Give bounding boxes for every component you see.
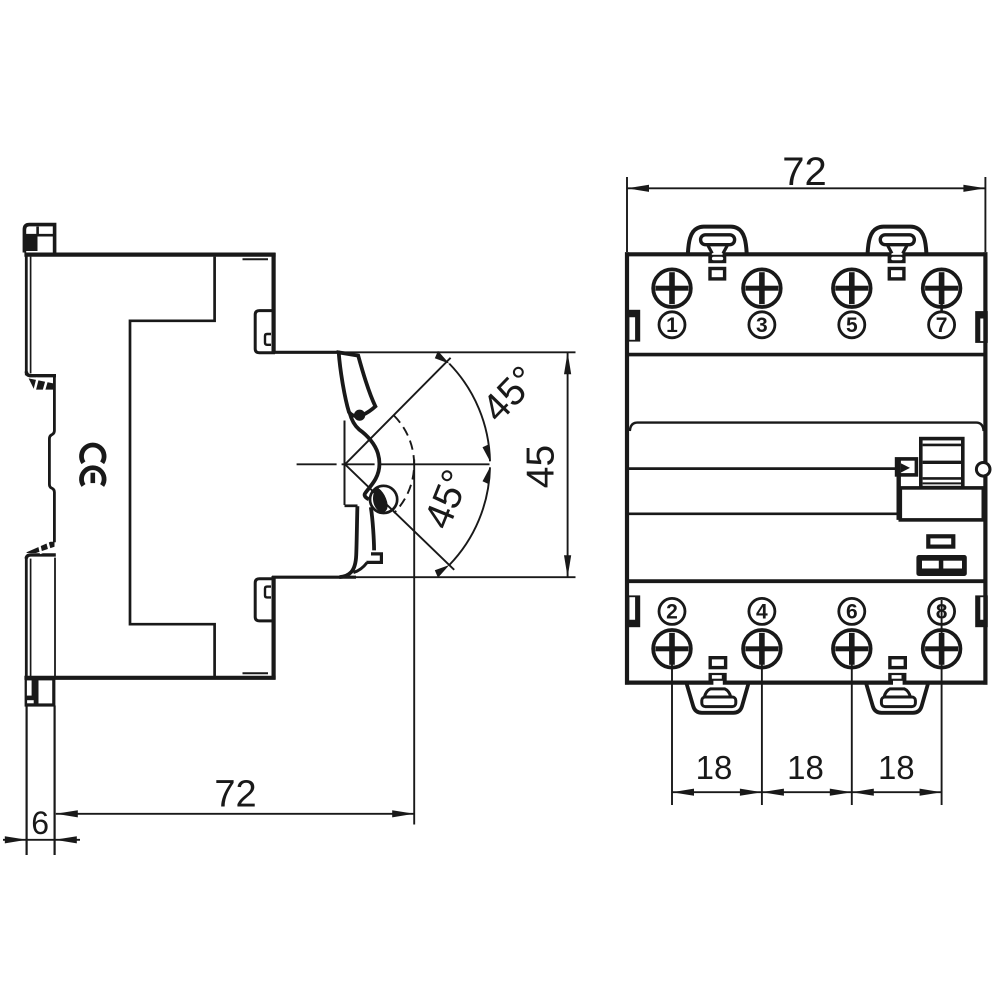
svg-text:1: 1 [666,314,678,337]
6 dim arrow pointing right [5,836,27,843]
side tab bottom-left [629,596,640,626]
lever slot top line [629,467,897,470]
lever knob S-curve [350,413,380,499]
45 dim arrow up [564,352,571,374]
lower latch tab [255,579,275,621]
lever lower blade right edge [371,507,374,550]
side tab top-left [629,311,640,341]
72 dim extension from toggle envelope [413,460,415,825]
arc2 arrow top [483,467,491,484]
svg-text:72: 72 [214,774,256,816]
bottom chamfer hatch [26,540,56,559]
body bottom edge [24,676,275,680]
top chamfer hatch [26,371,56,390]
pole number 5 [839,312,865,338]
lever tip diagonal [353,563,367,573]
top mounting arch 2 [868,227,927,254]
top edge inner double line [243,258,269,260]
arc1 arrow top [433,351,450,368]
lever upper blade [339,352,376,416]
left thick edge of switch [897,459,901,520]
svg-text:4: 4 [756,601,768,624]
centerline horizontal [297,463,490,465]
dashed swept arc [394,416,414,514]
body outline [625,252,988,684]
small circle on right edge [976,463,990,477]
bottom edge inner double line [243,672,269,674]
side tab top-right [976,312,987,342]
lever lower blade left edge [339,506,357,577]
dim arc lower 45deg [449,467,490,565]
screw 2 [653,630,691,668]
6 dim arrow pointing left [55,836,77,843]
indicator window with arrow [897,459,917,475]
lower latch notch [265,587,271,598]
screw 8 [923,630,961,668]
pole number 7 [929,304,955,338]
pole number 4 [749,598,775,624]
bottom inter-pole detail 2-4 [709,658,727,681]
screw 5 [833,269,871,307]
back strip upper left edge [25,253,28,376]
lever pivot dot [354,410,365,421]
back strip lower left edge [25,557,28,680]
dim arc upper 45deg [449,364,490,462]
screw 7 [923,269,961,307]
upper latch tab [255,311,275,353]
svg-text:3: 3 [756,314,768,337]
pole number 2 [659,598,685,624]
svg-text:18: 18 [878,749,915,786]
side tab bottom-right [976,596,987,626]
bottom arch 2 [866,683,928,713]
strip right edge lower [54,558,56,677]
svg-text:6: 6 [31,805,49,841]
45 vertical dim line [567,352,569,577]
bottom DIN clip [25,678,53,705]
arc1 arrow bottom [483,444,491,461]
72 dim arrow left [56,810,78,817]
wedge fill [373,487,388,512]
screw 4 [743,630,781,668]
terminal divider top [627,353,985,357]
6 dim line [3,839,80,841]
rotation wedge circle [370,486,397,513]
18 dim extension lines [671,649,673,805]
45-dim bottom extension [356,576,576,578]
CE mark rotated: E [82,468,105,486]
top inter-pole detail 1-3 [708,255,726,279]
arc2 arrow bottom [433,560,450,577]
rocker base plate [900,488,983,520]
svg-text:2: 2 [666,601,678,624]
face slot nub [345,504,358,507]
face slot edge [344,421,346,506]
svg-text:6: 6 [846,601,858,624]
pole number 1 [659,312,685,338]
pole number 3 [749,312,775,338]
face stepped line [630,423,984,431]
top inter-pole detail 5-7 [888,255,906,279]
svg-text:45: 45 [520,445,563,488]
svg-text:5: 5 [846,314,858,337]
extension lines for 6 dim [26,706,28,856]
body right edge lower [272,576,276,679]
body right edge upper [272,253,276,353]
test label small [928,536,953,546]
svg-text:18: 18 [787,749,824,786]
screw 1 [653,269,691,307]
rail groove contour [49,376,54,542]
toggle knob front [921,439,963,488]
45 dim arrow down [564,555,571,577]
face top edge [272,351,340,354]
45-dim top extension [340,351,576,353]
inner step contour [130,257,215,676]
72 dim right view extensions [626,177,628,252]
pole number 6 [839,598,865,624]
upper diagonal 45 line [345,358,451,465]
lever slot bottom line [629,512,901,515]
top DIN clip [24,225,54,253]
body top edge [24,253,275,257]
top mounting arch 1 [688,227,747,254]
18 dim arrows [672,789,694,796]
72 dim arrows right view [627,185,649,192]
svg-text:18: 18 [696,749,733,786]
svg-text:72: 72 [782,150,827,194]
upper latch notch [265,334,271,345]
72 dim arrow right [392,810,414,817]
screw 3 [743,269,781,307]
72 dim line left view [56,813,414,815]
screw 6 [833,630,871,668]
lever foot [366,554,381,563]
CE mark rotated: C [82,445,105,463]
bottom arch 1 [686,683,748,713]
pole number 8 [929,598,955,624]
bottom inter-pole detail 6-8 [888,658,906,681]
lower diagonal 45 line [345,464,454,570]
18 dim line [672,791,942,793]
test button double window [916,555,966,576]
svg-text:7: 7 [936,314,948,337]
face bottom edge [272,576,356,579]
72 dim line right view [627,187,985,189]
terminal divider bottom [627,579,985,583]
